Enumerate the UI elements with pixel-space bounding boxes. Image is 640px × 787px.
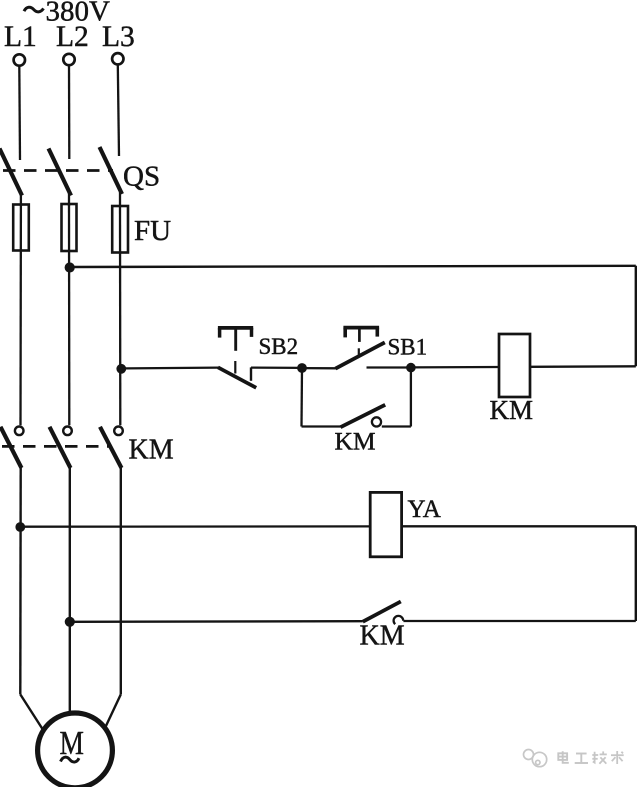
pushbutton SB1 cap — [343, 328, 379, 338]
pushbutton SB1 stem dash — [358, 348, 360, 354]
wire L2 lower drop — [69, 467, 71, 714]
contact KM auxiliary (NO) blade — [341, 405, 386, 427]
label ~380V supply — [24, 0, 110, 28]
wire through FU2 down to KM contact 2 — [68, 205, 71, 425]
fuse FU1 — [13, 205, 29, 251]
label SB2 — [259, 334, 299, 359]
terminal L2 — [63, 54, 74, 65]
wire L3 drop to QS — [118, 65, 119, 157]
wire through FU1 down to KM contact 1 — [19, 205, 22, 425]
motor tilde — [61, 757, 80, 762]
contactor KM main contact 1 seat — [15, 427, 24, 436]
contactor KM main contact 2 blade — [50, 427, 71, 468]
fuse FU3 — [112, 206, 128, 253]
node A junction — [297, 363, 307, 373]
pushbutton SB1 (NO) blade — [336, 342, 385, 368]
svg-text:QS: QS — [123, 161, 160, 193]
svg-text:L1: L1 — [4, 21, 37, 53]
contactor KM main contact 1 blade — [1, 427, 22, 468]
node L3 — [102, 21, 135, 53]
label KM main — [129, 435, 174, 466]
QS linkage dashed line — [3, 169, 113, 172]
svg-text:KM: KM — [490, 395, 534, 425]
svg-text:L2: L2 — [56, 21, 89, 53]
svg-text:SB2: SB2 — [259, 334, 299, 359]
wire YA rung left — [20, 525, 370, 528]
node L1 — [4, 21, 37, 53]
svg-text:KM: KM — [335, 427, 376, 456]
label FU — [134, 215, 171, 247]
contactor KM main contact 3 blade — [100, 427, 122, 468]
pushbutton SB2 fixed contact tick — [250, 367, 252, 380]
wire L1 drop to QS — [18, 66, 21, 160]
pushbutton SB2 blade — [218, 367, 256, 387]
svg-text:FU: FU — [134, 215, 171, 247]
svg-text:KM: KM — [129, 435, 174, 466]
wire node B to KM coil — [411, 366, 500, 369]
label KM auxiliary — [335, 427, 376, 456]
node B junction — [406, 363, 416, 373]
svg-text:YA: YA — [408, 496, 441, 523]
wire SB1 fixed side to node B — [367, 366, 411, 368]
motor label M — [60, 724, 84, 761]
terminal L3 — [112, 53, 123, 64]
switch QS pole 1 blade — [0, 149, 22, 196]
terminal L1 — [14, 54, 25, 65]
watermark text gong — [575, 754, 588, 764]
fuse FU2 — [62, 204, 77, 251]
wire L2 drop to QS — [68, 65, 71, 159]
KM main linkage dashed line — [2, 445, 110, 448]
wire aux branch bottom right — [382, 425, 411, 427]
wire bottom rung left — [70, 620, 363, 623]
contact KM bottom (NO) fixed contact — [394, 616, 404, 624]
switch QS pole 2 blade — [49, 149, 72, 196]
wire L1 lower drop — [19, 467, 22, 694]
junction on L1 feeding YA rung — [15, 522, 25, 532]
wire top control bus — [70, 266, 636, 267]
watermark text ji — [592, 751, 607, 763]
wire QS1 to FU1 — [20, 193, 22, 206]
watermark text dian — [558, 751, 569, 763]
watermark logo circles — [524, 750, 547, 767]
wire YA rung right — [402, 525, 636, 527]
label YA — [408, 496, 441, 523]
wire aux branch right drop — [410, 370, 412, 427]
wire aux branch left drop — [300, 368, 303, 427]
wire QS3 to FU3 — [119, 192, 121, 207]
wire aux branch bottom left — [302, 425, 342, 427]
watermark text shu — [611, 751, 624, 764]
label KM coil — [490, 395, 534, 425]
motor M circle — [38, 713, 113, 787]
pushbutton SB2 (NC) cap — [218, 328, 253, 338]
wire node A to SB1 pivot — [302, 367, 337, 369]
junction on L3 feeding control rung — [116, 364, 126, 374]
contactor KM main contact 3 seat — [114, 427, 123, 436]
svg-text:SB1: SB1 — [388, 335, 428, 360]
node L2 — [56, 21, 89, 53]
wire bottom rung right — [403, 620, 635, 622]
svg-text:KM: KM — [360, 621, 405, 652]
wire right drop YA to KM contact rung — [635, 526, 637, 621]
label SB1 — [388, 335, 428, 360]
junction on L2 at bottom rung — [65, 617, 75, 627]
wire L3 slant into motor — [105, 694, 121, 728]
contact KM bottom (NO) blade — [363, 602, 401, 622]
wire L3 lower drop — [120, 467, 122, 694]
wire L1 slant into motor — [20, 694, 42, 729]
label KM bottom — [360, 621, 405, 652]
contactor KM main contact 2 seat — [63, 427, 72, 436]
wire L3 junction to SB2 — [121, 366, 219, 369]
junction on L2 feeding control circuit — [65, 262, 75, 272]
wire KM coil to right drop — [530, 365, 636, 368]
wire QS2 to FU2 — [68, 193, 70, 206]
wire SB2 to node A — [251, 366, 302, 369]
pushbutton SB1 stem — [358, 329, 361, 342]
contact KM auxiliary fixed contact — [372, 417, 381, 426]
label QS — [123, 161, 160, 193]
wire through FU3 down to KM contact 3 — [119, 206, 122, 425]
pushbutton SB2 stem dash — [234, 361, 236, 374]
pushbutton SB2 stem — [234, 330, 237, 351]
switch QS pole 3 blade — [100, 147, 123, 194]
svg-text:L3: L3 — [102, 21, 135, 53]
svg-text:M: M — [60, 724, 84, 761]
contactor coil KM — [499, 334, 530, 397]
wire right drop to KM coil — [635, 266, 637, 367]
solenoid coil YA — [370, 492, 401, 556]
